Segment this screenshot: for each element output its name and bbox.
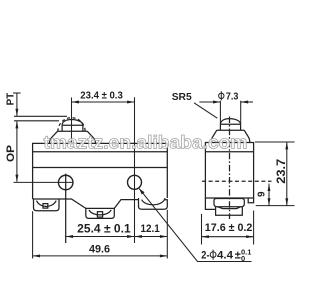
phi7.3 dim line left tail [199,101,220,103]
side view cap sides [220,124,240,130]
17.6 right extension line [253,211,255,245]
arrow 9 up [268,184,271,191]
arrow 23.7 down [285,198,288,205]
svg-text:17.6 ± 0.2: 17.6 ± 0.2 [205,222,253,234]
terminal cup 1 screw slot [43,204,48,209]
left view bottom edge left segment [33,199,86,208]
dim line 12.1 [135,236,168,238]
side view seam line [205,151,253,153]
side view flange [211,130,250,142]
side view bottom right foot [248,198,253,203]
dim line 23.4 [72,101,135,103]
arrow 17.6 left [202,235,209,238]
arrow 12.1 right [160,235,167,238]
svg-text:23.4 ± 0.3: 23.4 ± 0.3 [80,89,123,101]
dim line 25.4 [66,236,135,238]
PT dimension line [16,93,18,116]
plunger cap dome [62,120,83,126]
terminal cup 2 screw arc [89,210,111,215]
dim line 49.6 [33,255,168,257]
SR5 leader [194,103,217,118]
arrow phi7.3 pointing left [241,101,248,104]
arrow 25.4 right [127,235,134,238]
phi7.3 dim line right tail [241,101,253,103]
phi symbol for 7.3 [219,91,224,100]
plunger cap sides [62,125,83,131]
svg-text:OP: OP [5,145,17,162]
leader line 2-phi4.4 [139,189,251,262]
right edge extension line [166,210,168,259]
svg-text:2-: 2- [201,249,209,261]
left view seam line 2 [33,167,168,169]
plunger flange [49,131,95,143]
svg-text:9: 9 [256,191,267,197]
svg-text:7.3: 7.3 [226,91,239,103]
arrow 25.4 left [66,235,73,238]
terminal cup 1 screw arc [37,201,57,207]
side view plunger dome [220,119,240,125]
arrow OP down [15,175,18,182]
svg-text:PT: PT [5,93,16,106]
left hole center line vertical [65,174,67,243]
svg-text:25.4 ± 0.1: 25.4 ± 0.1 [77,223,131,235]
svg-text:49.6: 49.6 [89,244,110,256]
side view terminal upper [214,199,244,207]
side view terminal chamfer [217,207,240,209]
arrow 49.6 left [33,254,40,257]
phi7.3 right extension line [240,101,242,124]
arrow phi7.3 pointing right [213,101,220,104]
terminal cup 2 screw slot [97,212,102,217]
phi7.3 left extension line [219,101,221,124]
left view bottom edge right segment [114,200,138,209]
svg-text:0: 0 [241,254,245,263]
arrow 23.4 left [72,101,79,104]
arrow PT down [15,109,18,116]
terminal cup 1 [34,199,60,211]
PT top tick bar [13,92,21,94]
terminal cup 2 [86,208,115,218]
arrow leader to hole [139,189,144,195]
operating position reference line [14,120,59,122]
plunger free-position dashed circle [58,118,85,132]
left view seam line 1 [33,151,168,153]
left mounting hole [58,175,73,190]
svg-text:tmaztz.en.alibaba.com: tmaztz.en.alibaba.com [44,132,248,153]
23.7 dimension line [286,142,288,206]
left edge extension line [32,211,34,258]
9 dimension line [268,184,270,206]
terminal cup 3 [139,198,168,209]
side view center line [229,117,231,220]
right hole extension line [134,97,136,243]
terminal cup 3 screw arc [142,200,165,205]
plunger center extension line [71,98,73,144]
side view hole dashed line [202,180,272,182]
OP dimension line [16,122,18,182]
side view body outline [205,143,253,199]
left view body outline [33,143,168,199]
bottom extension line right view [256,205,295,207]
arrow 23.7 up [285,142,288,149]
right mounting hole [128,175,142,189]
arrow 49.6 right [160,254,167,257]
svg-text:12.1: 12.1 [141,223,160,235]
underline of 2-phi4.4 note [198,261,252,263]
svg-text:±: ± [235,249,241,261]
arrow 12.1 left [135,235,142,238]
arrow 17.6 right [246,235,253,238]
dim line 17.6 [202,236,254,238]
23.7 top extension line [255,141,295,143]
svg-text:23.7: 23.7 [276,159,288,184]
arrow OP up [15,121,18,128]
side view cap base line [220,123,240,125]
arrow 9 down [268,198,271,205]
OP reference line to hole [14,181,74,183]
side view bottom left foot [205,198,215,209]
svg-text:SR5: SR5 [172,91,192,103]
side view terminal lower [216,207,243,216]
free position reference line [14,115,67,117]
arrow 23.4 right [127,101,134,104]
17.6 left extension line [201,214,203,245]
plunger cap base line [62,124,83,126]
svg-text:4.4: 4.4 [217,249,234,261]
